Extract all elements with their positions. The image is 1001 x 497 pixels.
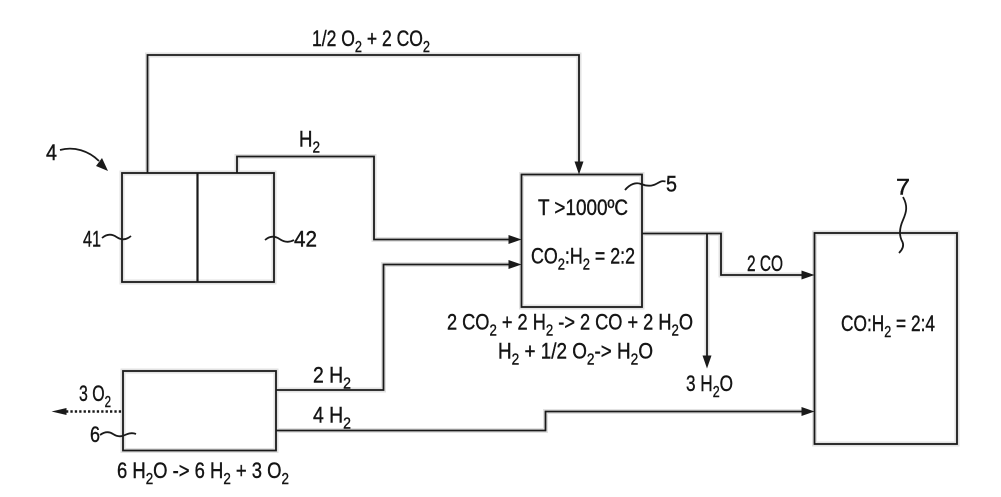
svg-text:7: 7 <box>896 175 910 200</box>
arrowhead into box 5 top <box>575 162 584 175</box>
arrowhead 3 O2 out left <box>52 408 67 415</box>
squiggle leader for 5 <box>625 181 666 190</box>
svg-text:5: 5 <box>666 172 677 197</box>
light scan-halo underlay for boxes and wires <box>122 55 957 451</box>
wire 3 O2 out of box 6 left (dotted) <box>66 410 123 413</box>
arrowhead 2 H2 into box 5 left <box>509 260 522 269</box>
box 7 (product stream mixer) <box>815 233 958 444</box>
arrowhead H2 into box 5 left <box>509 235 522 244</box>
squiggle leader for 6 <box>100 432 136 436</box>
arrowhead 3 H2O down <box>703 356 712 369</box>
squiggle leader for 41 <box>102 235 131 240</box>
svg-text:42: 42 <box>294 227 317 252</box>
wire 3 H2O branch down <box>706 234 708 358</box>
wire 4 H2 from box 6 right to box 7 left <box>276 412 803 431</box>
wire 2 CO from box 5 right to box 7 left <box>642 234 803 276</box>
box 4 (electrolyser with cells 41/42) <box>122 173 274 282</box>
svg-text:6: 6 <box>90 422 100 447</box>
box 6 (water electrolyser) <box>123 371 276 451</box>
divider between cell 41 and cell 42 <box>196 173 198 282</box>
svg-text:2 CO: 2 CO <box>747 251 783 276</box>
squiggle leader for 42 <box>265 237 294 242</box>
arrowhead 4 H2 into box 7 left <box>802 407 815 416</box>
svg-text:41: 41 <box>83 227 101 252</box>
wire H2 from box 4 top to box 5 left <box>237 157 510 240</box>
squiggle leader for 7 <box>899 197 906 253</box>
leader arrow for 4 <box>60 149 99 161</box>
wire 2 H2 from box 6 right to box 5 left <box>276 265 510 391</box>
arrowhead 2 CO into box 7 left <box>802 271 815 280</box>
svg-text:4: 4 <box>46 140 57 165</box>
svg-text:T >1000ºC: T >1000ºC <box>538 195 628 220</box>
box 5 (reactor T>1000C) <box>522 175 643 308</box>
wire 1/2 O2 + 2 CO2 from box 4 top to box 5 top <box>148 55 580 173</box>
